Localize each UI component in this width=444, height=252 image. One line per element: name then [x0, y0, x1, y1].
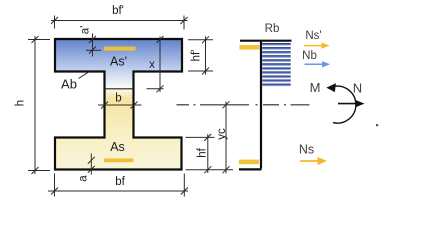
svg-text:yc: yc: [216, 128, 228, 140]
svg-text:bf': bf': [112, 5, 124, 17]
svg-text:Rb: Rb: [265, 23, 280, 35]
svg-text:x: x: [149, 59, 155, 71]
svg-text:Ab: Ab: [61, 77, 77, 92]
svg-text:N: N: [353, 81, 362, 96]
svg-text:bf: bf: [115, 176, 125, 188]
svg-text:As': As': [110, 55, 127, 69]
svg-text:As: As: [110, 140, 125, 154]
svg-text:a': a': [80, 26, 92, 35]
svg-text:h: h: [15, 100, 27, 106]
svg-text:hf: hf: [197, 147, 209, 157]
svg-text:b: b: [115, 93, 121, 105]
svg-text:hf': hf': [191, 50, 203, 62]
svg-text:Ns': Ns': [305, 30, 321, 42]
svg-text:a: a: [78, 175, 90, 182]
svg-text:Nb: Nb: [302, 50, 317, 62]
svg-text:Ns: Ns: [299, 142, 314, 156]
svg-text:M: M: [310, 80, 321, 95]
